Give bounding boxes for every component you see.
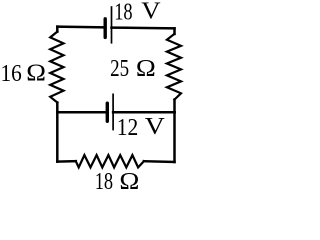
battery B2 thick plate (12 V) [106,103,109,121]
wire right rail top lead [173,28,176,34]
svg-text:Ω: Ω [26,61,46,87]
svg-text:25: 25 [110,56,129,82]
svg-text:16: 16 [1,61,22,87]
svg-text:V: V [145,114,166,140]
wire left rail lower segment [56,103,59,162]
svg-text:18: 18 [114,0,132,25]
wire middle rail left segment [57,111,106,114]
battery B1 thin plate (18 V) [111,6,113,43]
resistor R2 25 ohm zigzag [167,34,181,100]
resistor R1 16 ohm zigzag [50,32,63,103]
battery B1 thick plate (18 V) [103,19,106,38]
label 18 ohm (bottom resistor) [95,169,140,195]
label 12 V (middle battery) [117,114,166,141]
wire top rail left segment [57,25,104,28]
wire right rail lower segment [173,100,176,162]
svg-text:Ω: Ω [119,169,139,194]
resistor R3 18 ohm zigzag [76,155,144,167]
svg-text:18: 18 [95,169,113,194]
wire middle rail right segment [113,111,175,114]
battery B2 thin plate (12 V) [112,94,114,131]
wire bottom rail right segment [144,160,175,163]
svg-text:Ω: Ω [136,56,156,82]
wire bottom rail left segment [57,160,76,163]
label 18 V (top battery) [114,0,161,25]
label 16 ohm (left resistor) [1,61,47,87]
wire top rail right segment [112,26,175,29]
label 25 ohm (right resistor) [110,56,156,82]
svg-text:V: V [141,0,161,25]
wire left rail top lead [56,27,59,32]
svg-text:12: 12 [117,115,139,141]
